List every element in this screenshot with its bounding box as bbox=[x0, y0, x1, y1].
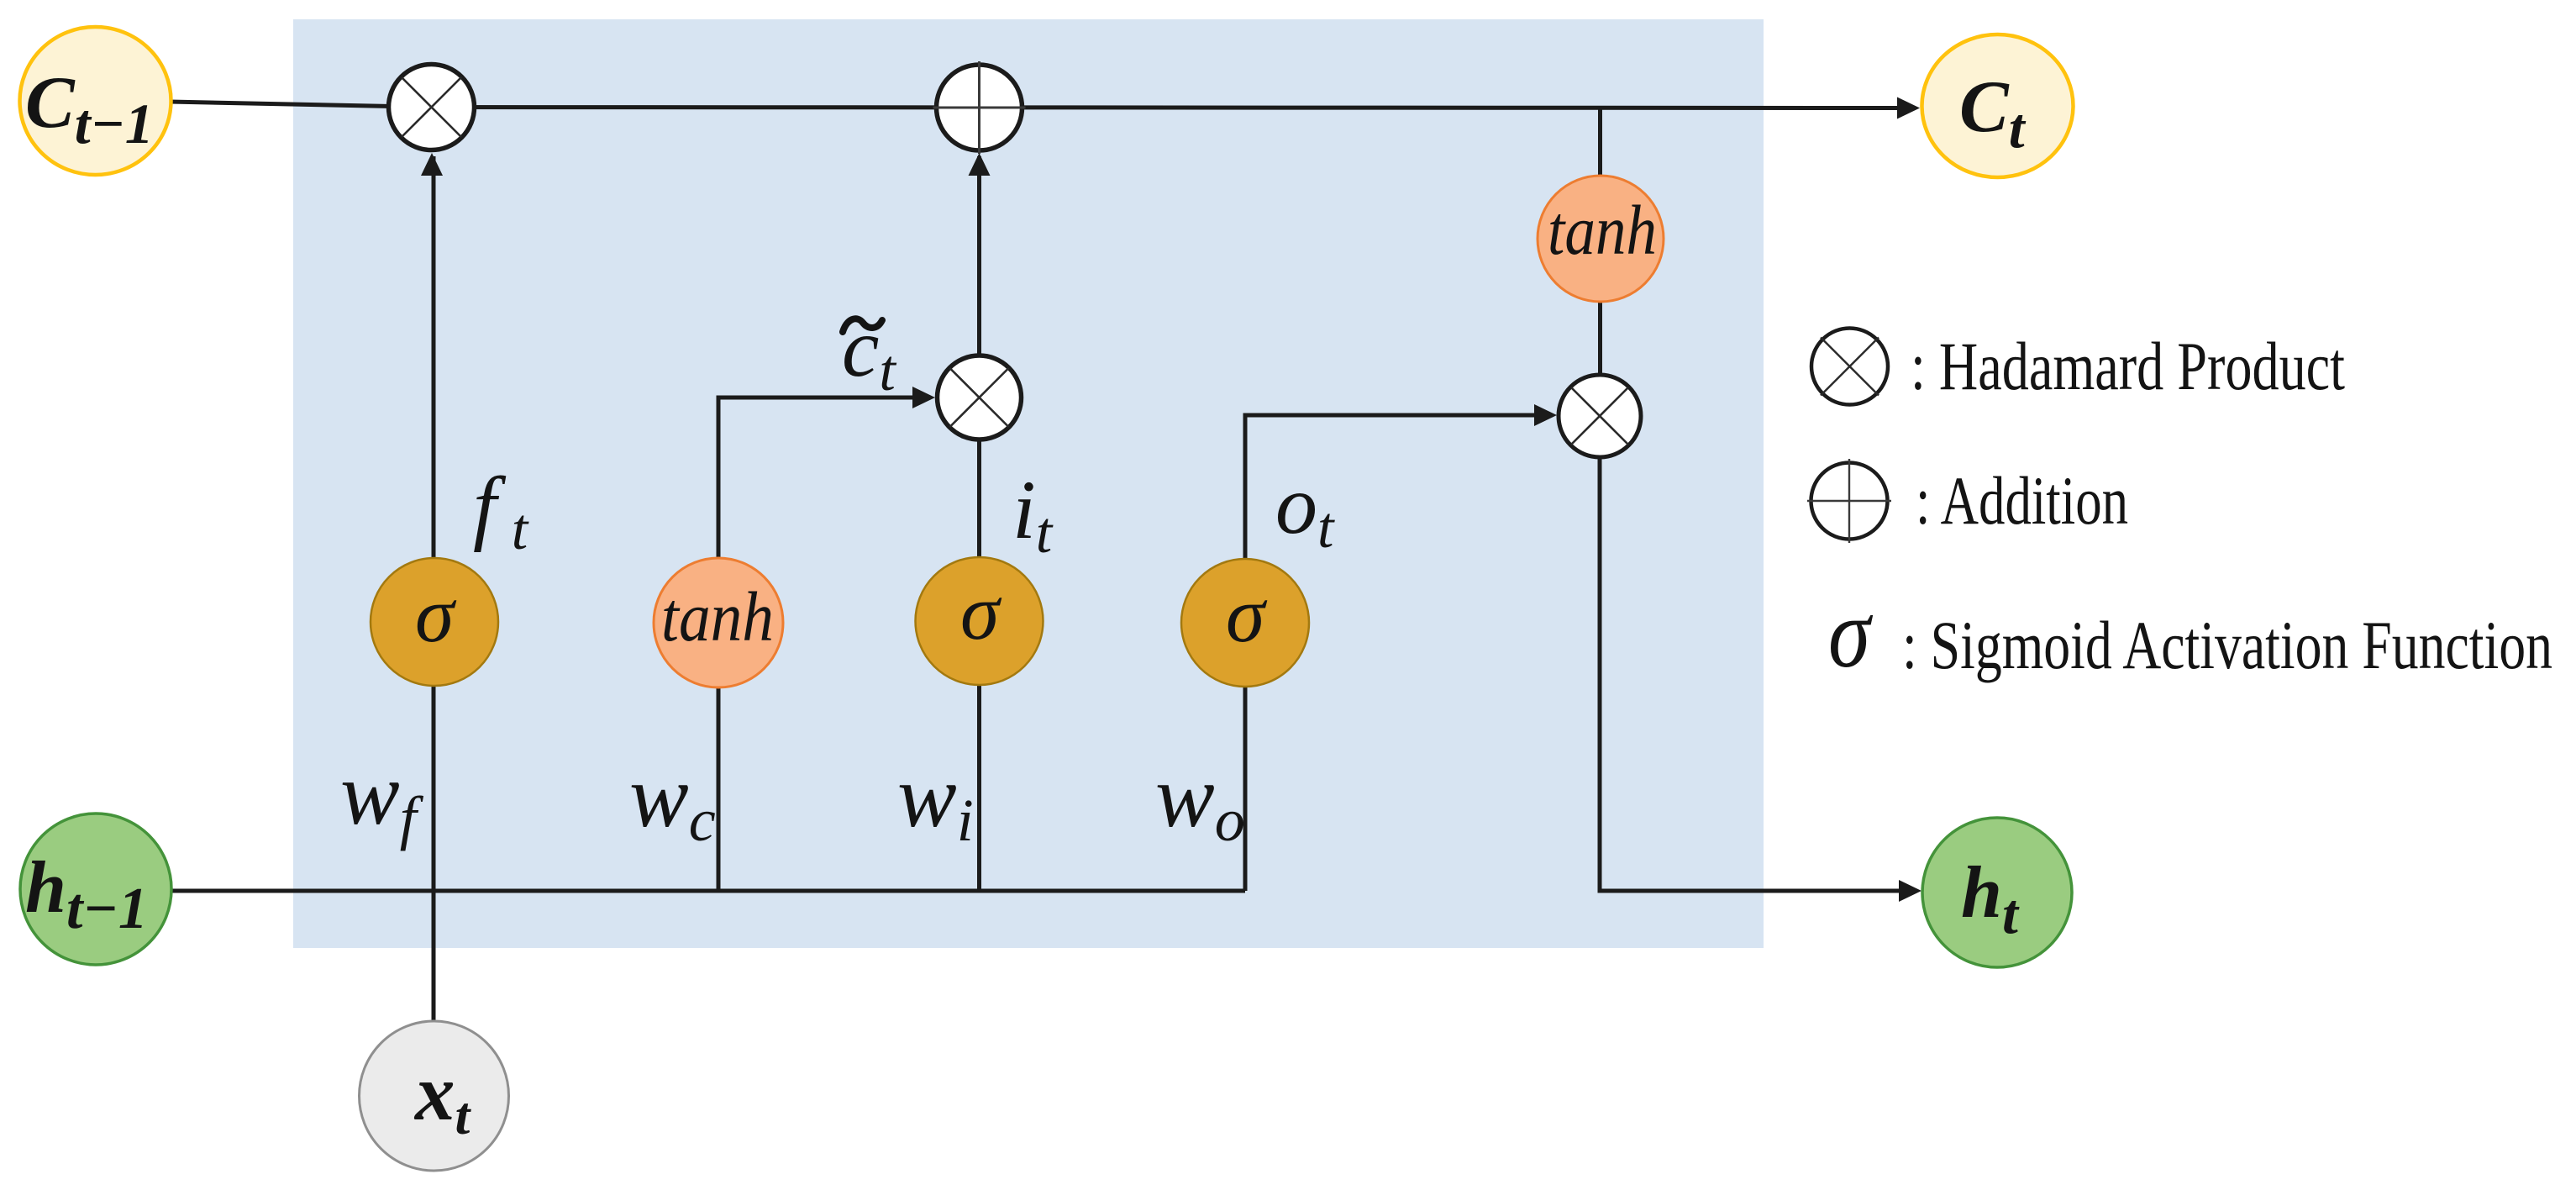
cell body background bbox=[293, 19, 1764, 948]
wire: forget gate vertical (xt up through sigma1 to mult1) bbox=[432, 156, 436, 1021]
svg-text:: Addition: : Addition bbox=[1916, 462, 2128, 539]
svg-text:tanh: tanh bbox=[1548, 192, 1657, 270]
wire: branch from C line down through tanh2 to mult3 bbox=[1598, 108, 1602, 376]
svg-text:σ: σ bbox=[1828, 578, 1873, 688]
wire: h line (ht-1 to wo riser) bbox=[170, 889, 1245, 893]
wire: candidate path (tanh1 up, right into mult2) bbox=[718, 398, 922, 891]
node ht-1 bbox=[20, 814, 171, 965]
gate tanh2 (cell output) bbox=[1538, 176, 1664, 302]
svg-text:σ: σ bbox=[960, 569, 1002, 656]
svg-text:tanh: tanh bbox=[661, 578, 774, 656]
arrowhead into mult3 bbox=[1534, 404, 1557, 426]
op mult3 (output) bbox=[1559, 375, 1641, 457]
gate tanh1 (candidate) bbox=[654, 558, 783, 687]
arrowhead into add1 bbox=[969, 153, 991, 176]
arrowhead into mult2 bbox=[912, 387, 935, 408]
wire: output path (mult3 down, right into ht) bbox=[1600, 457, 1907, 891]
svg-text:σ: σ bbox=[415, 571, 457, 659]
gate sigma1 (forget) bbox=[371, 558, 498, 686]
arrowhead into ht bbox=[1899, 880, 1921, 902]
gate sigma2 (input) bbox=[916, 557, 1044, 685]
arrowhead into Ct bbox=[1897, 97, 1920, 119]
legend add symbol bbox=[1807, 459, 1891, 543]
node Ct-1 bbox=[20, 27, 171, 175]
svg-text:σ: σ bbox=[1226, 571, 1268, 659]
gate sigma3 (output) bbox=[1181, 559, 1309, 687]
legend mult symbol bbox=[1811, 329, 1888, 405]
wire: input gate vertical (sigma2 up through mult2 to add1) bbox=[977, 156, 981, 891]
wire: output gate path (sigma3 up, right into mult3) bbox=[1245, 415, 1543, 891]
arrowhead into mult1 bbox=[421, 153, 443, 176]
svg-text:: Hadamard Product: : Hadamard Product bbox=[1911, 328, 2345, 404]
op mult2 (input x candidate) bbox=[938, 355, 1022, 440]
svg-text:: Sigmoid Activation Function: : Sigmoid Activation Function bbox=[1902, 607, 2552, 683]
op mult1 (forget) bbox=[389, 65, 475, 150]
label ct tilde bbox=[843, 319, 882, 332]
op add1 bbox=[933, 61, 1026, 154]
wire: C line (Ct-1 to Ct) bbox=[170, 102, 1906, 108]
node ht bbox=[1922, 818, 2072, 967]
node xt bbox=[360, 1021, 509, 1171]
node Ct bbox=[1922, 34, 2074, 177]
